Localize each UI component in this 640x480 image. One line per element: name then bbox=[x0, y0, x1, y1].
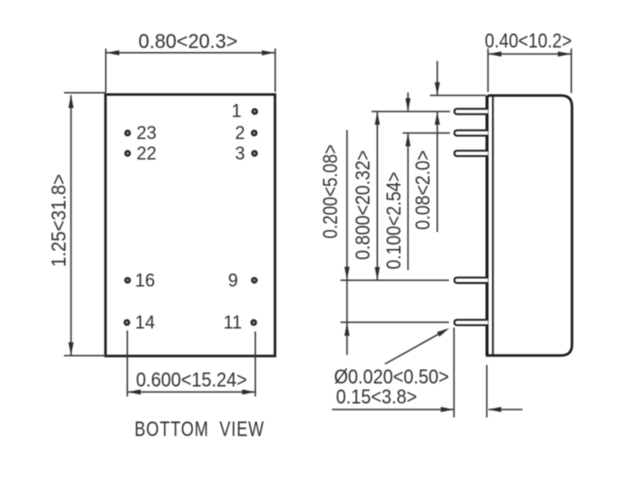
pin 1 dot bbox=[252, 109, 257, 114]
pin 3 dot bbox=[252, 151, 257, 156]
dimension 0.40(10.2) package height bbox=[485, 29, 572, 93]
pin 9 dot bbox=[252, 278, 257, 283]
svg-text:0.800<20.32>: 0.800<20.32> bbox=[353, 150, 375, 260]
side pin row 2 bbox=[454, 130, 488, 135]
svg-text:14: 14 bbox=[135, 313, 155, 333]
svg-text:0.15<3.8>: 0.15<3.8> bbox=[336, 387, 417, 409]
svg-text:Ø0.020<0.50>: Ø0.020<0.50> bbox=[334, 367, 449, 389]
svg-text:BOTTOM VIEW: BOTTOM VIEW bbox=[134, 417, 264, 440]
dimension 0.600(15.24) pin span of bottom view bbox=[127, 331, 255, 397]
svg-text:0.08<2.0>: 0.08<2.0> bbox=[413, 150, 435, 230]
dimension 0.200(5.08) lower pin pitch bbox=[319, 130, 350, 355]
pin 2 label bbox=[235, 123, 245, 143]
svg-text:3: 3 bbox=[235, 144, 245, 164]
pin 14 label bbox=[135, 313, 155, 333]
svg-text:22: 22 bbox=[137, 144, 157, 164]
svg-text:0.200<5.08>: 0.200<5.08> bbox=[319, 144, 342, 238]
dimension 0.800(20.32) pin group span bbox=[353, 112, 380, 280]
pin 23 label bbox=[137, 123, 157, 143]
bottom view package outline bbox=[106, 95, 276, 357]
svg-text:2: 2 bbox=[235, 123, 245, 143]
pin 16 dot bbox=[125, 278, 130, 283]
pin 16 label bbox=[135, 270, 155, 290]
svg-text:16: 16 bbox=[135, 270, 155, 290]
svg-text:11: 11 bbox=[223, 313, 242, 333]
svg-text:23: 23 bbox=[137, 123, 157, 143]
pin 14 dot bbox=[125, 320, 130, 325]
svg-text:0.80<20.3>: 0.80<20.3> bbox=[138, 31, 237, 53]
extension line pin row 1 bbox=[372, 111, 451, 113]
side pin row 11 bbox=[454, 320, 488, 325]
dimension 0.100(2.54) upper pin pitch bbox=[382, 93, 410, 271]
svg-text:9: 9 bbox=[228, 270, 238, 290]
extension line body top bbox=[430, 94, 486, 96]
pin 11 dot bbox=[251, 320, 256, 325]
side pin row 1 bbox=[454, 109, 488, 114]
svg-text:1.25<31.8>: 1.25<31.8> bbox=[49, 174, 71, 267]
pin 9 label bbox=[228, 270, 238, 290]
svg-text:0.600<15.24>: 0.600<15.24> bbox=[136, 369, 247, 391]
extension line pin row 2 bbox=[403, 132, 451, 134]
dimension 0.80(20.3) width of bottom view bbox=[106, 31, 275, 92]
pin 3 label bbox=[235, 144, 245, 164]
svg-text:1: 1 bbox=[231, 101, 241, 121]
side pin row 3 bbox=[454, 151, 488, 156]
pin 22 label bbox=[137, 144, 157, 164]
pin 1 label bbox=[231, 101, 241, 121]
dimension 1.25(31.8) height of bottom view bbox=[49, 93, 106, 356]
pin 2 dot bbox=[252, 131, 257, 136]
svg-text:0.40<10.2>: 0.40<10.2> bbox=[485, 29, 572, 52]
side view package outline bbox=[487, 96, 572, 356]
leader arrow to pin diameter bbox=[385, 328, 450, 364]
extension line pin row 9 bbox=[341, 279, 450, 281]
dimension 0.08(2.0) standoff bbox=[413, 61, 440, 232]
svg-text:0.100<2.54>: 0.100<2.54> bbox=[382, 172, 404, 270]
caption BOTTOM VIEW bbox=[134, 417, 264, 440]
pin 22 dot bbox=[125, 151, 130, 156]
extension line pin row 11 bbox=[341, 321, 450, 323]
pin 23 dot bbox=[125, 131, 130, 136]
side pin row 9 bbox=[454, 278, 488, 283]
label pin diameter bbox=[334, 367, 449, 389]
label pin length bbox=[336, 387, 417, 409]
pin 11 label bbox=[223, 313, 242, 333]
dimension 0.15(3.8) pin protrusion bbox=[332, 328, 523, 418]
side view header inner line bbox=[492, 97, 494, 355]
